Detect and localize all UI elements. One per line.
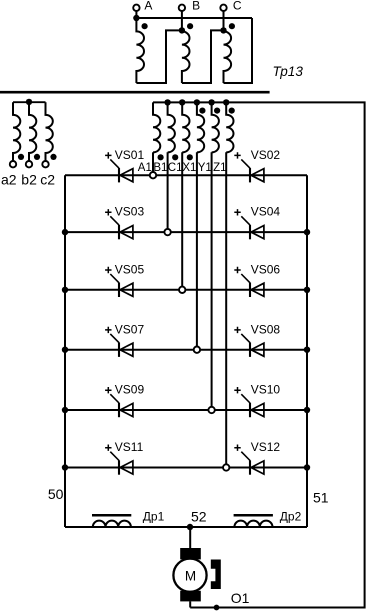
choke Dr2 core	[234, 514, 273, 517]
polarity dot a2	[18, 154, 24, 160]
thyristor VS10	[234, 383, 280, 418]
primary winding C (Tp13)	[224, 30, 232, 83]
svg-text:b2: b2	[21, 172, 37, 188]
polarity dot X1	[199, 108, 205, 114]
junction right bus row 5	[304, 407, 310, 413]
svg-text:VS09: VS09	[115, 383, 145, 397]
wire X1 drop	[196, 152, 198, 349]
svg-text:C: C	[233, 0, 242, 13]
wire bridge row 5	[65, 409, 307, 411]
svg-text:VS07: VS07	[115, 322, 145, 336]
secondary winding c2	[46, 102, 53, 161]
wire bridge row 6	[65, 467, 307, 469]
wire motor feed	[189, 527, 191, 549]
svg-text:VS02: VS02	[251, 148, 281, 162]
junction left bus row 6	[62, 464, 68, 470]
svg-text:VS12: VS12	[251, 440, 281, 454]
secondary winding X1	[197, 102, 204, 152]
motor brush block bottom	[180, 591, 201, 602]
svg-text:VS05: VS05	[115, 262, 145, 276]
svg-text:52: 52	[191, 509, 207, 525]
node C1 tap	[179, 287, 185, 293]
wire dc link bottom	[65, 526, 307, 528]
svg-text:VS11: VS11	[115, 440, 144, 454]
junction node A	[133, 15, 139, 21]
thyristor VS09	[105, 383, 144, 418]
wire secondary rail and right return to O1	[153, 102, 365, 607]
junction left bus row 5	[62, 407, 68, 413]
secondary winding C1	[182, 102, 189, 152]
polarity dot B1	[172, 154, 178, 160]
junction left bus row 4	[62, 347, 68, 353]
svg-text:Y1: Y1	[198, 162, 212, 174]
motor M1 body	[173, 559, 206, 592]
junction right bus row 4	[304, 347, 310, 353]
secondary winding B1	[168, 102, 175, 152]
svg-text:51: 51	[313, 490, 329, 506]
secondary winding b2	[29, 102, 36, 161]
svg-text:A1: A1	[138, 162, 152, 174]
wire bridge row 2	[65, 231, 307, 233]
terminal a2	[10, 161, 16, 167]
node B1 tap	[164, 229, 170, 235]
wire bridge row 1	[65, 174, 307, 176]
wire lead C	[223, 11, 225, 31]
wire delta return C-A	[224, 18, 253, 83]
junction node B	[179, 27, 185, 33]
svg-text:VS01: VS01	[115, 148, 145, 162]
svg-text:B: B	[192, 0, 200, 13]
wire right bus (node 51)	[306, 175, 308, 527]
svg-text:VS04: VS04	[251, 205, 281, 219]
thyristor VS11	[105, 440, 143, 475]
thyristor VS12	[234, 440, 280, 475]
wire motor return	[189, 601, 191, 607]
polarity dot A1	[158, 154, 164, 160]
secondary winding Y1	[212, 102, 219, 152]
polarity dot Y1	[214, 108, 220, 114]
svg-text:c2: c2	[40, 172, 55, 188]
svg-text:C1: C1	[168, 162, 183, 174]
junction node C	[220, 27, 226, 33]
svg-text:a2: a2	[1, 172, 17, 188]
svg-text:50: 50	[48, 486, 64, 502]
junction rail-C1	[179, 99, 185, 105]
svg-text:VS06: VS06	[251, 262, 281, 276]
junction node 52	[187, 524, 193, 530]
secondary winding A1	[153, 102, 160, 152]
svg-text:X1: X1	[182, 162, 196, 174]
junction rail-Z1	[223, 99, 229, 105]
junction left bus row 3	[62, 287, 68, 293]
junction right bus row 6	[304, 464, 310, 470]
choke Dr1 winding	[93, 521, 131, 527]
wire bridge row 3	[65, 289, 307, 291]
thyristor VS03	[105, 205, 144, 240]
thyristor VS02	[234, 148, 280, 183]
junction rail-X1	[194, 99, 200, 105]
polarity dot c2	[50, 154, 56, 160]
polarity dot winding B	[187, 23, 193, 29]
thyristor VS01	[105, 148, 144, 183]
junction rail-Y1	[208, 99, 214, 105]
wire primary top rail	[136, 17, 252, 19]
wire star rail a2b2c2	[13, 101, 46, 103]
junction rail-B1	[164, 99, 170, 105]
junction right bus row 3	[304, 287, 310, 293]
svg-text:М: М	[185, 568, 196, 583]
polarity dot C1	[187, 154, 193, 160]
svg-text:Тр13: Тр13	[273, 64, 304, 79]
svg-text:Др2: Др2	[280, 510, 302, 524]
svg-text:VS10: VS10	[251, 383, 281, 397]
thyristor VS04	[234, 205, 280, 240]
node Z1 tap	[223, 464, 229, 470]
primary winding B (Tp13)	[182, 30, 190, 83]
svg-text:Z1: Z1	[213, 162, 226, 174]
transformer core line	[0, 91, 270, 94]
svg-text:Др1: Др1	[143, 510, 165, 524]
terminal b2	[26, 161, 32, 167]
primary winding A (Tp13)	[136, 18, 144, 83]
wire A1 drop	[152, 152, 154, 175]
wire Z1 drop	[225, 152, 227, 467]
wire lead A	[135, 11, 137, 18]
secondary winding Z1	[226, 102, 233, 152]
terminal A	[133, 5, 139, 11]
node A1 tap	[150, 172, 156, 178]
motor brush bracket	[211, 560, 221, 590]
polarity dot winding A	[142, 23, 148, 29]
terminal C	[220, 5, 226, 11]
svg-text:O1: O1	[231, 590, 250, 606]
svg-text:A: A	[144, 0, 152, 13]
secondary winding a2	[13, 102, 20, 161]
wire B1 drop	[167, 152, 169, 232]
wire bridge row 4	[65, 349, 307, 351]
node Y1 tap	[208, 407, 214, 413]
wire delta return A-B	[136, 30, 182, 83]
junction right bus row 2	[304, 229, 310, 235]
polarity dot winding C	[229, 23, 235, 29]
thyristor VS08	[234, 322, 280, 357]
junction node O1	[214, 605, 220, 611]
thyristor VS05	[105, 262, 144, 297]
choke Dr2 winding	[234, 521, 272, 527]
terminal B	[179, 5, 185, 11]
junction left bus row 2	[62, 229, 68, 235]
junction star point	[26, 99, 32, 105]
wire C1 drop	[181, 152, 183, 289]
polarity dot Z1	[229, 108, 235, 114]
motor brush block top	[180, 548, 201, 559]
polarity dot b2	[34, 154, 40, 160]
wire Y1 drop	[211, 152, 213, 410]
thyristor VS06	[234, 262, 280, 297]
choke Dr1 core	[92, 514, 131, 517]
thyristor VS07	[105, 322, 144, 357]
svg-text:VS03: VS03	[115, 205, 145, 219]
wire left bus (node 50)	[64, 175, 66, 527]
svg-text:VS08: VS08	[251, 322, 281, 336]
wire lead B	[181, 11, 183, 31]
wire delta return B-C	[182, 30, 224, 83]
terminal c2	[42, 161, 48, 167]
node X1 tap	[194, 347, 200, 353]
